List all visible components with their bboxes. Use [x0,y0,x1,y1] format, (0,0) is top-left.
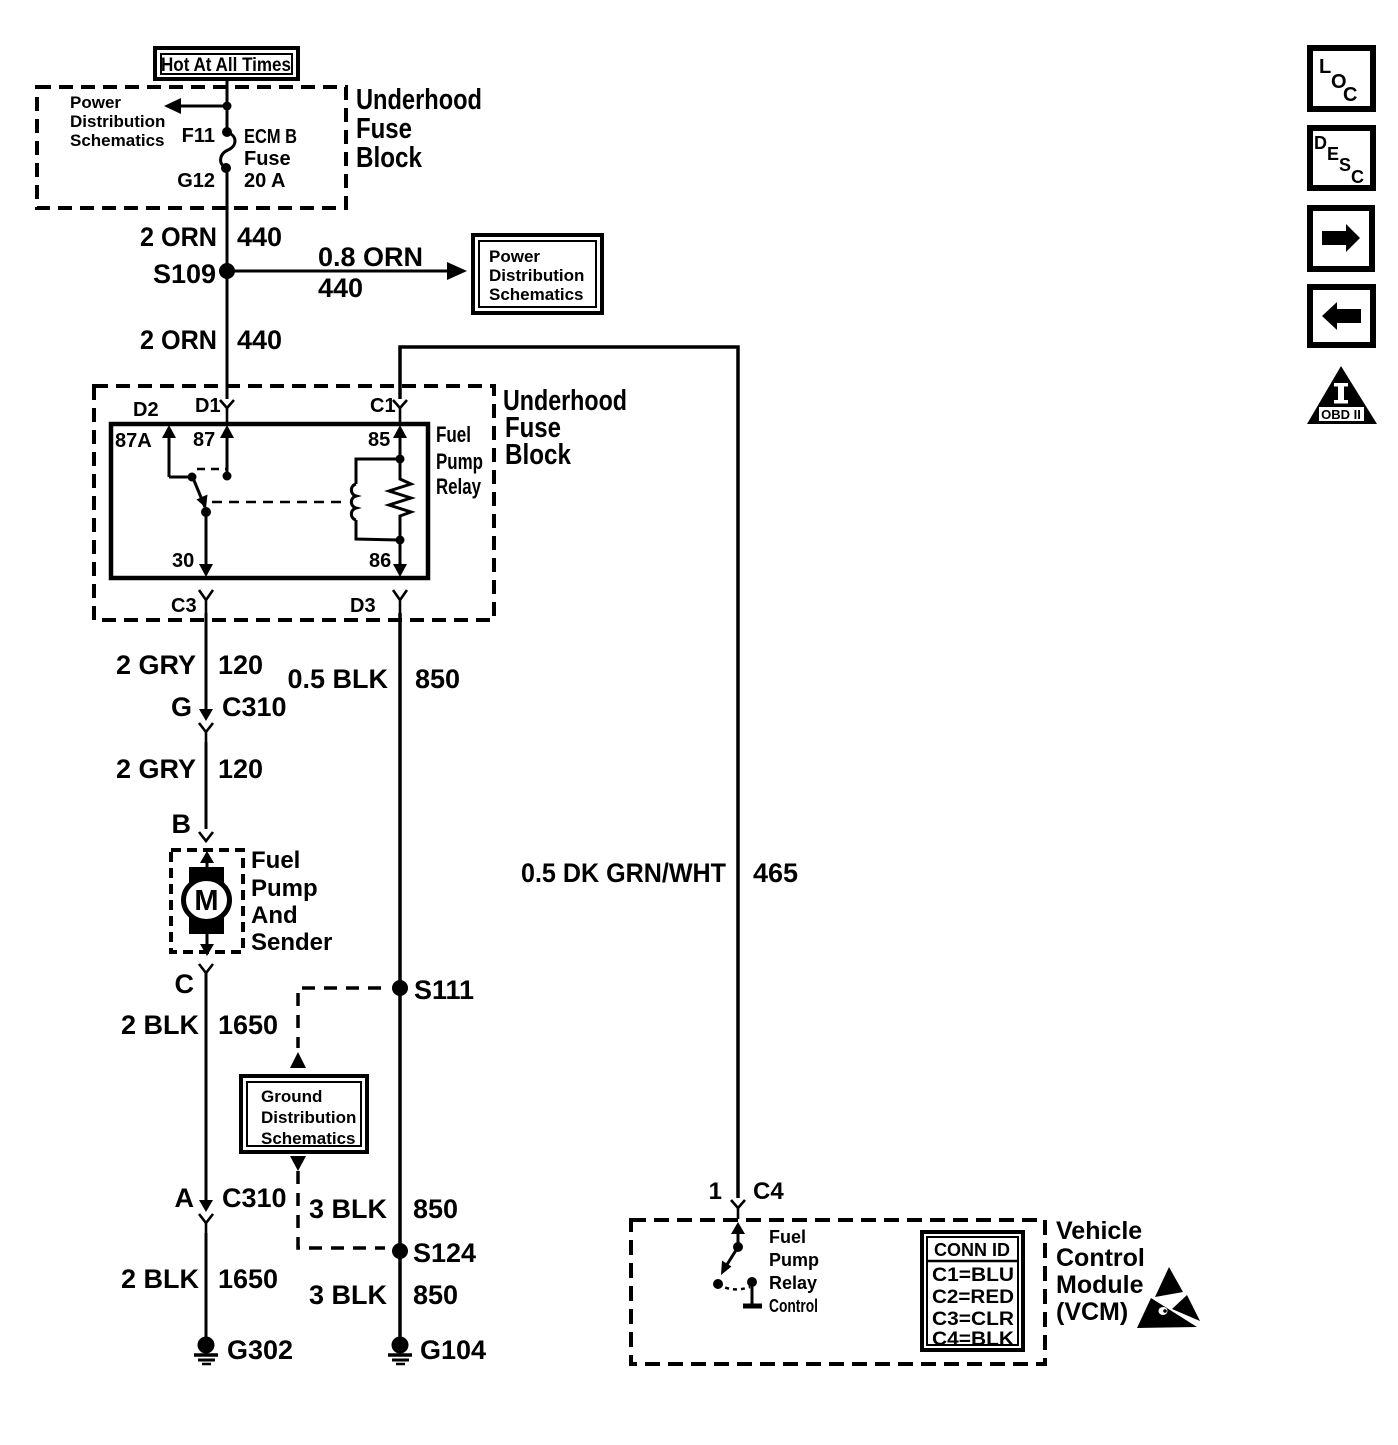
relay coil (left branch) [351,459,400,540]
wire label: 2 GRY 120 (upper) [116,650,263,680]
margin icon: back arrow box [1310,287,1373,345]
svg-text:A: A [175,1183,195,1213]
svg-text:465: 465 [753,858,798,888]
dashed link between 87A and 87 contacts [197,468,226,471]
svg-text:Relay: Relay [436,474,482,499]
wire label: 2 BLK 1650 (upper) [121,1010,278,1040]
label: Underhood Fuse Block (relay) [503,385,627,471]
svg-text:Pump: Pump [251,875,318,902]
svg-text:M: M [194,885,218,917]
motor M (fuel pump motor) [184,867,230,934]
svg-text:CONN ID: CONN ID [934,1240,1010,1260]
relay coil suppression resistor (right branch, zigzag) [389,459,411,540]
wire: 0.5 BLK 850 from D3 down to ground G104 [398,613,402,1337]
wire: 2 ORN 440 from fuse G12 down to node S109 [226,168,229,271]
reference box: Power Distribution Schematics [473,235,602,313]
wire: 0.5 DK GRN/WHT 465 run from C1 to VCM pin 1 C4 [400,347,738,1198]
svg-text:1: 1 [709,1178,722,1205]
wire: branch arrow to Power Distribution Schematics (left) [164,98,227,114]
relay pin 30 lead (arrow down) [199,512,213,577]
svg-text:E: E [1327,144,1339,164]
margin icon: LOC box [1310,48,1373,109]
fuel pump return lead (arrow down inside pump) [200,934,214,956]
value label: ECM B Fuse 20 A [244,126,297,192]
connector D3 (female chevron) [393,590,407,613]
vehicle control module dashed outline [631,1220,1045,1364]
label box: Hot At All Times [155,48,298,79]
svg-text:2 GRY: 2 GRY [116,754,196,784]
node S124 [392,1238,476,1268]
wire label: 0.8 ORN 440 [318,242,423,303]
svg-text:Block: Block [505,439,572,471]
svg-text:0.5 BLK: 0.5 BLK [287,664,388,694]
svg-text:30: 30 [172,550,194,572]
relay pin 87A terminal (arrow up) and lead [162,425,197,482]
svg-text:Fuel: Fuel [436,422,471,447]
svg-text:Schematics: Schematics [489,285,584,304]
fuel pump feed lead (arrow up inside pump) [200,851,214,870]
connector pin C (female chevron) [199,964,213,973]
svg-text:G302: G302 [227,1335,293,1365]
VCM internal fuel pump relay control switch (arrow up) [731,1222,745,1252]
wire: 2 GRY 120 from C3 down to connector C310 pin G [205,613,208,710]
wire: 0.8 ORN 440 branch to Power Distribution Schematics (right arrow) [227,262,467,280]
svg-text:1650: 1650 [218,1264,278,1294]
svg-text:850: 850 [415,664,460,694]
svg-text:G: G [171,692,192,722]
svg-text:85: 85 [368,429,390,451]
wire label: 3 BLK 850 (below S124) [309,1280,458,1310]
svg-text:440: 440 [237,222,282,252]
ground G104 [388,1335,486,1365]
svg-text:1650: 1650 [218,1010,278,1040]
svg-text:And: And [251,902,298,929]
svg-text:Pump: Pump [769,1250,819,1270]
label: Vehicle Control Module (VCM) [1056,1217,1145,1326]
CONN ID table [922,1232,1023,1350]
svg-text:D1: D1 [195,395,221,417]
relay pin 85 terminal (arrow up) and lead [393,425,407,464]
svg-text:2 BLK: 2 BLK [121,1010,200,1040]
fuse F11 ECM B 20 A [221,127,235,173]
connector C310 pin G (male arrow into female chevron) [199,709,213,742]
svg-text:OBD II: OBD II [1321,407,1361,422]
svg-text:Fuse: Fuse [356,113,412,145]
svg-text:Distribution: Distribution [261,1108,356,1127]
svg-text:C3=CLR: C3=CLR [932,1309,1014,1330]
svg-text:2 BLK: 2 BLK [121,1264,200,1294]
svg-text:C: C [1351,167,1364,187]
svg-text:C4: C4 [753,1178,784,1205]
margin icon: OBD II triangle [1307,366,1377,424]
connector C4 (female chevron) [731,1200,745,1219]
svg-text:20 A: 20 A [244,170,286,192]
svg-text:Vehicle: Vehicle [1056,1217,1142,1245]
junction: coil bottom node [396,536,405,545]
svg-text:Underhood: Underhood [356,84,482,116]
svg-text:Ground: Ground [261,1087,322,1106]
dashed wire: S111 to Ground Distribution Schematics [290,988,381,1068]
svg-text:120: 120 [218,650,263,680]
margin icon: DESC box [1310,128,1373,188]
dashed wire: Ground Distribution Schematics to S124 [290,1156,385,1248]
dashed mechanical link from switch to coil [212,501,348,504]
node S111 [392,975,474,1005]
relay: fuel pump relay body [111,424,428,578]
wire: 2 ORN 440 from S109 down to connector D1 [226,271,229,399]
svg-text:F11: F11 [182,125,215,147]
wire: battery feed from Hot At All Times down to fuse F11 [226,77,229,132]
relay switch blade (movable contact) [193,478,211,517]
svg-text:2 ORN: 2 ORN [140,325,217,355]
svg-text:Power: Power [489,247,540,266]
fuel pump and sender dashed outline [171,850,243,952]
svg-text:Control: Control [1056,1244,1145,1272]
svg-text:B: B [172,809,192,839]
svg-text:S124: S124 [413,1238,476,1268]
junction: fuse feed node [223,102,232,111]
VCM switch blade (movable contact with arrowhead) [713,1247,738,1289]
label: Underhood Fuse Block (upper) [356,84,482,174]
svg-text:Fuse: Fuse [244,148,291,170]
svg-text:D3: D3 [350,595,376,617]
svg-text:Hot At All Times: Hot At All Times [161,55,291,76]
wire: 2 BLK 1650 from C310 pin A down to ground G302 [205,1233,208,1337]
svg-text:440: 440 [237,325,282,355]
connector D1 (female chevron) [220,400,234,422]
svg-text:Pump: Pump [436,449,483,474]
margin icon: forward arrow box [1310,208,1372,269]
svg-text:850: 850 [413,1194,458,1224]
wire: 2 BLK 1650 from pump pin C down to connector C310 pin A [205,973,208,1200]
underhood fuse block (relay) dashed outline [94,386,494,620]
note: Power Distribution Schematics (inside fuse block) [70,93,165,150]
svg-text:87A: 87A [115,430,152,452]
svg-text:S111: S111 [414,975,474,1005]
svg-text:3 BLK: 3 BLK [309,1194,388,1224]
svg-text:Control: Control [769,1296,818,1316]
svg-text:2 ORN: 2 ORN [140,222,217,252]
svg-text:Distribution: Distribution [489,266,584,285]
svg-text:ECM B: ECM B [244,126,297,148]
wire label: 2 BLK 1650 (lower) [121,1264,278,1294]
reference box: Ground Distribution Schematics [241,1076,367,1152]
svg-text:87: 87 [193,429,215,451]
svg-text:Schematics: Schematics [261,1129,356,1148]
svg-text:Distribution: Distribution [70,112,165,131]
svg-text:Fuel: Fuel [251,847,300,874]
svg-text:C: C [175,969,195,999]
svg-text:3 BLK: 3 BLK [309,1280,388,1310]
svg-text:D2: D2 [133,399,159,421]
VCM solid state driver symbol [743,1277,762,1306]
label: Fuel Pump And Sender [251,847,332,956]
wire label: 2 ORN 440 (upper) [140,222,282,252]
svg-text:0.5 DK GRN/WHT: 0.5 DK GRN/WHT [521,858,726,888]
svg-text:(VCM): (VCM) [1056,1298,1128,1326]
svg-text:C3: C3 [171,595,197,617]
wire label: 0.5 BLK 850 [287,664,460,694]
connector C310 pin A (male arrow into female chevron) [199,1200,213,1233]
svg-text:C2=RED: C2=RED [932,1287,1014,1308]
label: Fuel Pump Relay [436,422,483,499]
svg-text:Module: Module [1056,1271,1144,1299]
node S109 [153,259,235,289]
svg-text:Block: Block [356,142,423,174]
svg-text:Fuel: Fuel [769,1227,806,1247]
svg-text:C: C [1343,84,1357,106]
svg-text:C310: C310 [222,692,287,722]
connector C1 (female chevron) [393,400,407,422]
relay pin 87 terminal (arrow up) and contact [220,425,234,481]
dotted link from blade to driver [718,1284,750,1289]
wire: 2 GRY 120 from C310 down to pump pin B [205,742,208,829]
wire label: 0.5 DK GRN/WHT 465 [521,858,798,888]
svg-text:C4=BLK: C4=BLK [932,1329,1014,1350]
wire label: 2 GRY 120 (lower) [116,754,263,784]
svg-text:C1: C1 [370,395,396,417]
svg-text:G104: G104 [420,1335,486,1365]
svg-text:S: S [1339,155,1351,175]
svg-text:120: 120 [218,754,263,784]
ESD sensitive device symbol [1137,1267,1200,1328]
connector C3 (female chevron) [199,590,213,613]
svg-text:D: D [1314,133,1327,153]
relay pin 86 lead (arrow down) [393,540,407,577]
svg-text:G12: G12 [177,170,215,192]
svg-text:0.8 ORN: 0.8 ORN [318,242,423,272]
svg-text:Schematics: Schematics [70,131,165,150]
ground G302 [194,1335,293,1365]
svg-text:L: L [1319,56,1331,78]
wire label: 2 ORN 440 (lower) [140,325,282,355]
wire label: 3 BLK 850 (above S124) [309,1194,458,1224]
svg-text:2 GRY: 2 GRY [116,650,196,680]
svg-text:Relay: Relay [769,1273,817,1293]
svg-text:86: 86 [369,550,391,572]
svg-text:Power: Power [70,93,121,112]
underhood fuse block (upper) dashed outline [37,87,346,208]
svg-text:850: 850 [413,1280,458,1310]
svg-text:440: 440 [318,273,363,303]
connector pin B (female chevron) [199,832,213,841]
label: Fuel Pump Relay Control [769,1227,819,1316]
svg-text:C1=BLU: C1=BLU [932,1265,1014,1286]
svg-text:S109: S109 [153,259,216,289]
svg-text:C310: C310 [222,1183,287,1213]
svg-text:Sender: Sender [251,929,332,956]
